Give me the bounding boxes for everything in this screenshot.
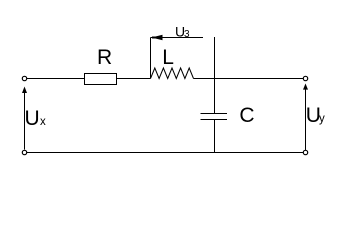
- svg-text:L: L: [162, 46, 174, 69]
- svg-text:U: U: [25, 107, 40, 130]
- svg-text:R: R: [97, 46, 112, 69]
- svg-text:x: x: [40, 116, 46, 128]
- svg-text:3: 3: [184, 29, 190, 40]
- svg-text:C: C: [239, 104, 254, 127]
- svg-text:y: y: [319, 113, 325, 125]
